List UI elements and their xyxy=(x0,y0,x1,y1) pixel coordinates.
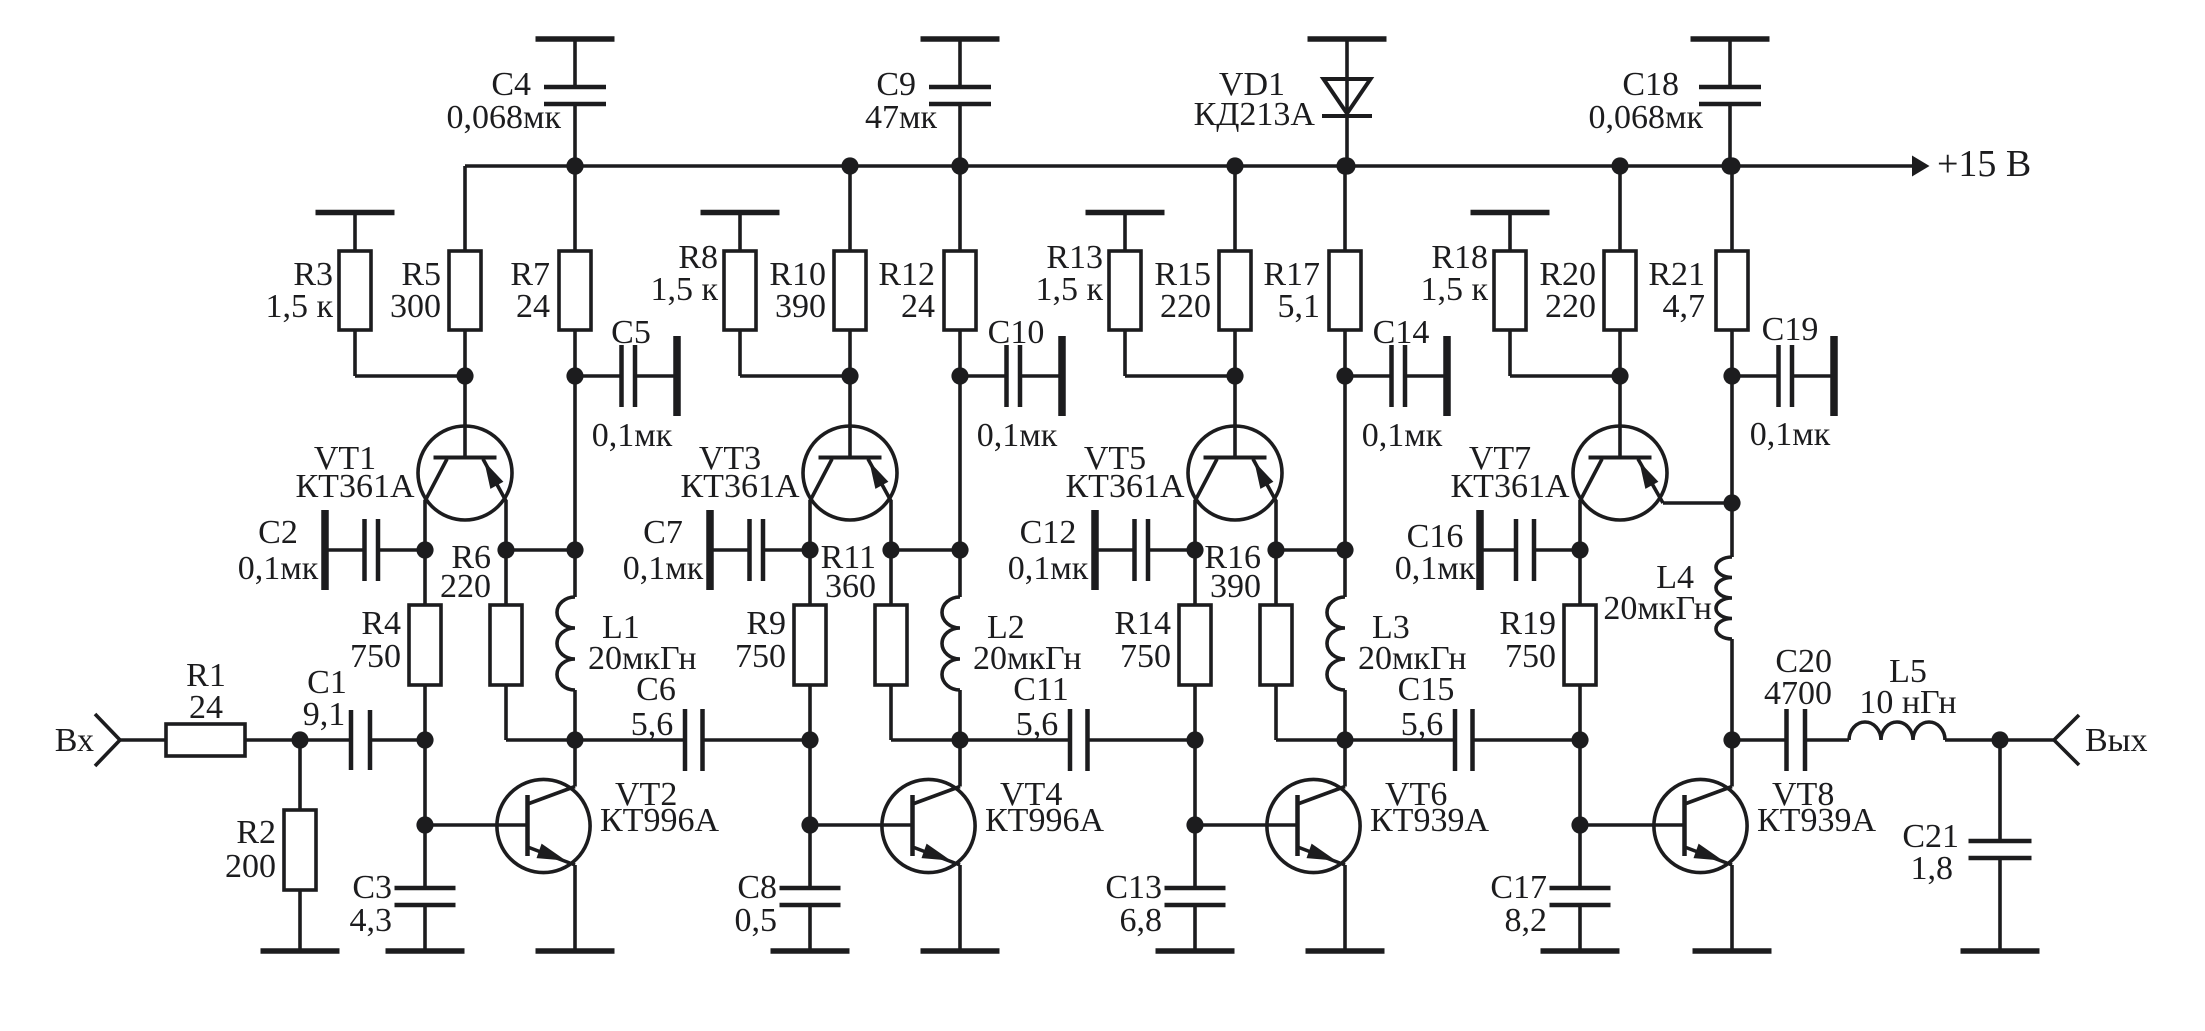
svg-text:1,5 к: 1,5 к xyxy=(1420,271,1488,308)
node emitter xyxy=(882,541,960,558)
svg-text:0,1мк: 0,1мк xyxy=(1008,550,1089,587)
wire xyxy=(1510,330,1620,376)
node output xyxy=(1991,731,2008,748)
wire xyxy=(245,738,351,742)
svg-text:КТ361А: КТ361А xyxy=(296,468,415,505)
svg-text:КТ939А: КТ939А xyxy=(1370,802,1489,839)
ground xyxy=(1156,948,1235,954)
svg-text:5,6: 5,6 xyxy=(631,706,674,743)
wire xyxy=(1578,740,1582,825)
node F xyxy=(1336,731,1353,748)
node F xyxy=(1723,731,1740,748)
node xyxy=(566,157,583,174)
capacitor C19 xyxy=(1732,311,1834,453)
svg-text:0,068мк: 0,068мк xyxy=(1588,99,1703,136)
svg-text:C9: C9 xyxy=(876,66,916,103)
capacitor C3 xyxy=(350,825,456,951)
svg-text:КТ361А: КТ361А xyxy=(681,468,800,505)
node emitter xyxy=(1267,541,1345,558)
wire xyxy=(1193,740,1197,825)
capacitor C7 xyxy=(623,510,810,590)
svg-text:4700: 4700 xyxy=(1764,675,1832,712)
ground xyxy=(386,948,465,954)
transistor VT1 xyxy=(296,426,513,520)
svg-text:220: 220 xyxy=(1545,288,1596,325)
transistor VT4 xyxy=(810,740,1104,951)
svg-text:390: 390 xyxy=(775,288,826,325)
svg-text:220: 220 xyxy=(440,568,491,605)
svg-text:КД213А: КД213А xyxy=(1194,96,1316,133)
transistor VT3 xyxy=(681,426,898,520)
node xyxy=(566,541,583,558)
ground xyxy=(261,948,340,954)
wire collector xyxy=(808,500,812,550)
wire xyxy=(423,740,427,825)
capacitor C4 xyxy=(446,39,606,166)
svg-text:0,068мк: 0,068мк xyxy=(446,99,561,136)
svg-text:C11: C11 xyxy=(1013,671,1068,708)
svg-text:C2: C2 xyxy=(258,514,298,551)
svg-text:0,1мк: 0,1мк xyxy=(1362,417,1443,454)
svg-text:КТ996А: КТ996А xyxy=(600,802,719,839)
svg-text:5,6: 5,6 xyxy=(1016,706,1059,743)
node xyxy=(1721,157,1738,174)
capacitor C9 xyxy=(865,39,991,166)
resistor R11 xyxy=(821,539,960,740)
svg-text:C13: C13 xyxy=(1105,869,1162,906)
svg-text:C8: C8 xyxy=(737,869,777,906)
node F xyxy=(566,731,583,748)
ground xyxy=(701,213,780,252)
ground xyxy=(921,948,1000,954)
ground xyxy=(1693,948,1772,954)
node xyxy=(1336,541,1353,558)
svg-text:10 нГн: 10 нГн xyxy=(1859,684,1956,721)
capacitor C21 xyxy=(1902,740,2031,951)
svg-text:R4: R4 xyxy=(361,605,401,642)
wire collector xyxy=(1578,500,1582,550)
svg-text:C17: C17 xyxy=(1490,869,1547,906)
ground xyxy=(536,948,615,954)
node emitter xyxy=(497,541,575,558)
resistor R12 xyxy=(878,166,976,376)
wire xyxy=(120,738,166,742)
node bias xyxy=(456,367,473,384)
ground xyxy=(771,948,850,954)
node xyxy=(1336,367,1353,384)
resistor R10 xyxy=(769,166,866,376)
wire xyxy=(808,740,812,825)
node xyxy=(1338,157,1355,174)
node B xyxy=(416,731,433,748)
capacitor C18 xyxy=(1588,39,1761,166)
svg-text:750: 750 xyxy=(350,638,401,675)
node A xyxy=(291,731,308,748)
transistor VT5 xyxy=(1066,426,1283,520)
inductor L2 xyxy=(942,550,1082,740)
ground xyxy=(1086,213,1165,252)
svg-text:750: 750 xyxy=(735,638,786,675)
ground xyxy=(1691,36,1770,42)
svg-text:C19: C19 xyxy=(1762,311,1819,348)
svg-text:C3: C3 xyxy=(352,869,392,906)
svg-text:200: 200 xyxy=(225,848,276,885)
capacitor C1 xyxy=(303,664,425,770)
svg-text:C5: C5 xyxy=(611,314,651,351)
svg-text:0,1мк: 0,1мк xyxy=(977,417,1058,454)
ground xyxy=(316,213,395,252)
wire emitter xyxy=(889,500,893,550)
svg-text:КТ939А: КТ939А xyxy=(1757,802,1876,839)
resistor R21 xyxy=(1648,166,1748,376)
capacitor C11 xyxy=(960,671,1195,771)
wire emitter xyxy=(1274,500,1278,550)
ground xyxy=(536,36,615,42)
wire collector xyxy=(423,500,427,550)
svg-text:24: 24 xyxy=(901,288,935,325)
svg-text:4,7: 4,7 xyxy=(1663,288,1706,325)
resistor R20 xyxy=(1539,166,1636,376)
svg-text:C12: C12 xyxy=(1020,514,1077,551)
svg-text:0,1мк: 0,1мк xyxy=(1395,550,1476,587)
node xyxy=(951,367,968,384)
capacitor C10 xyxy=(960,314,1062,454)
svg-text:КТ361А: КТ361А xyxy=(1066,468,1185,505)
svg-text:C15: C15 xyxy=(1398,671,1455,708)
inductor L5 xyxy=(1849,653,2000,740)
resistor R14 xyxy=(1114,550,1211,740)
capacitor C16 xyxy=(1395,510,1580,590)
resistor R5 xyxy=(390,166,481,376)
node B xyxy=(1186,731,1203,748)
capacitor C12 xyxy=(1008,510,1195,590)
svg-text:9,1: 9,1 xyxy=(303,696,346,733)
node xyxy=(566,157,583,174)
transistor VT8 xyxy=(1580,740,1876,951)
capacitor C6 xyxy=(575,671,810,771)
svg-text:1,8: 1,8 xyxy=(1911,850,1954,887)
inductor L4 xyxy=(1603,503,1732,740)
node collector xyxy=(1186,541,1203,558)
svg-text:1,5 к: 1,5 к xyxy=(650,271,718,308)
svg-text:C14: C14 xyxy=(1373,314,1430,351)
wire xyxy=(355,330,465,376)
svg-text:C6: C6 xyxy=(636,671,676,708)
ground xyxy=(1541,948,1620,954)
node F xyxy=(951,731,968,748)
svg-text:750: 750 xyxy=(1505,638,1556,675)
node bias xyxy=(841,367,858,384)
node bias xyxy=(1611,367,1628,384)
node Вых output xyxy=(2000,715,2148,765)
svg-text:24: 24 xyxy=(516,288,550,325)
ground xyxy=(1306,948,1385,954)
resistor R9 xyxy=(735,550,826,740)
svg-text:0,1мк: 0,1мк xyxy=(623,550,704,587)
node xyxy=(951,157,968,174)
svg-text:390: 390 xyxy=(1210,568,1261,605)
svg-text:1,5 к: 1,5 к xyxy=(1035,271,1103,308)
inductor L3 xyxy=(1327,550,1467,740)
resistor R6 xyxy=(440,539,575,740)
svg-text:C4: C4 xyxy=(491,66,531,103)
node base xyxy=(1571,816,1588,833)
node xyxy=(951,541,968,558)
svg-text:R19: R19 xyxy=(1499,605,1556,642)
resistor R15 xyxy=(1154,166,1251,376)
svg-text:1,5 к: 1,5 к xyxy=(265,288,333,325)
svg-text:4,3: 4,3 xyxy=(350,902,393,939)
svg-text:C7: C7 xyxy=(643,514,683,551)
node collector xyxy=(801,541,818,558)
svg-text:220: 220 xyxy=(1160,288,1211,325)
capacitor C8 xyxy=(735,825,841,951)
wire xyxy=(573,376,577,550)
resistor R16 xyxy=(1204,539,1345,740)
svg-text:R2: R2 xyxy=(236,814,276,851)
wire emitter xyxy=(1663,501,1732,505)
svg-text:360: 360 xyxy=(825,568,876,605)
node base xyxy=(801,816,818,833)
svg-text:0,1мк: 0,1мк xyxy=(238,550,319,587)
svg-text:КТ996А: КТ996А xyxy=(985,802,1104,839)
resistor R4 xyxy=(350,550,441,740)
node base xyxy=(1186,816,1203,833)
capacitor C13 xyxy=(1105,825,1225,951)
node xyxy=(1723,367,1740,384)
wire emitter xyxy=(504,500,508,550)
svg-text:R9: R9 xyxy=(746,605,786,642)
node xyxy=(1611,157,1628,174)
wire xyxy=(1343,376,1347,550)
node emitter xyxy=(1723,494,1740,511)
node Вх input xyxy=(55,714,120,766)
capacitor C2 xyxy=(238,510,425,590)
node xyxy=(1723,157,1740,174)
wire base xyxy=(1618,376,1622,458)
node collector xyxy=(1571,541,1588,558)
node xyxy=(1336,157,1353,174)
ground xyxy=(921,36,1000,42)
svg-text:0,5: 0,5 xyxy=(735,902,778,939)
wire base xyxy=(848,376,852,458)
ground xyxy=(1308,36,1387,42)
node collector xyxy=(416,541,433,558)
wire xyxy=(1730,376,1734,503)
wire xyxy=(1125,330,1235,376)
svg-text:750: 750 xyxy=(1120,638,1171,675)
capacitor C17 xyxy=(1490,825,1610,951)
svg-text:C18: C18 xyxy=(1622,66,1679,103)
node +15 V arrow xyxy=(1912,143,2031,185)
node B xyxy=(1571,731,1588,748)
resistor R2 xyxy=(225,740,316,951)
resistor R8 xyxy=(650,239,756,330)
wire xyxy=(958,376,962,550)
transistor VT2 xyxy=(425,740,719,951)
diode VD1 xyxy=(1194,39,1372,166)
svg-text:47мк: 47мк xyxy=(865,99,938,136)
inductor L1 xyxy=(557,550,697,740)
svg-text:8,2: 8,2 xyxy=(1505,902,1548,939)
wire +15 V rail xyxy=(465,164,1912,168)
svg-text:0,1мк: 0,1мк xyxy=(592,417,673,454)
resistor R13 xyxy=(1035,239,1141,330)
svg-text:+15 В: +15 В xyxy=(1937,143,2031,185)
svg-text:Вых: Вых xyxy=(2085,722,2148,759)
node xyxy=(841,157,858,174)
capacitor C15 xyxy=(1345,671,1580,771)
svg-text:5,6: 5,6 xyxy=(1401,706,1444,743)
node base xyxy=(416,816,433,833)
wire base xyxy=(463,376,467,458)
resistor R7 xyxy=(510,166,591,376)
svg-text:20мкГн: 20мкГн xyxy=(1603,590,1712,627)
svg-text:300: 300 xyxy=(390,288,441,325)
wire collector xyxy=(1193,500,1197,550)
capacitor C14 xyxy=(1345,314,1447,454)
svg-text:5,1: 5,1 xyxy=(1278,288,1321,325)
svg-text:Вх: Вх xyxy=(55,722,94,759)
svg-text:C10: C10 xyxy=(988,314,1045,351)
svg-text:КТ361А: КТ361А xyxy=(1451,468,1570,505)
node B xyxy=(801,731,818,748)
capacitor C5 xyxy=(575,314,677,454)
node xyxy=(566,367,583,384)
node xyxy=(951,157,968,174)
svg-text:R14: R14 xyxy=(1114,605,1171,642)
svg-text:0,1мк: 0,1мк xyxy=(1750,416,1831,453)
node xyxy=(1226,157,1243,174)
resistor R18 xyxy=(1420,239,1526,330)
ground xyxy=(1471,213,1550,252)
capacitor C20 xyxy=(1732,643,1849,771)
resistor R3 xyxy=(265,251,371,330)
node bias xyxy=(1226,367,1243,384)
resistor R1 xyxy=(166,657,245,756)
svg-text:6,8: 6,8 xyxy=(1120,902,1163,939)
transistor VT7 xyxy=(1451,426,1668,520)
transistor VT6 xyxy=(1195,740,1489,951)
resistor R19 xyxy=(1499,550,1596,740)
resistor R17 xyxy=(1263,166,1361,376)
wire base xyxy=(1233,376,1237,458)
ground xyxy=(1961,948,2040,954)
wire xyxy=(740,330,850,376)
svg-text:24: 24 xyxy=(189,689,223,726)
